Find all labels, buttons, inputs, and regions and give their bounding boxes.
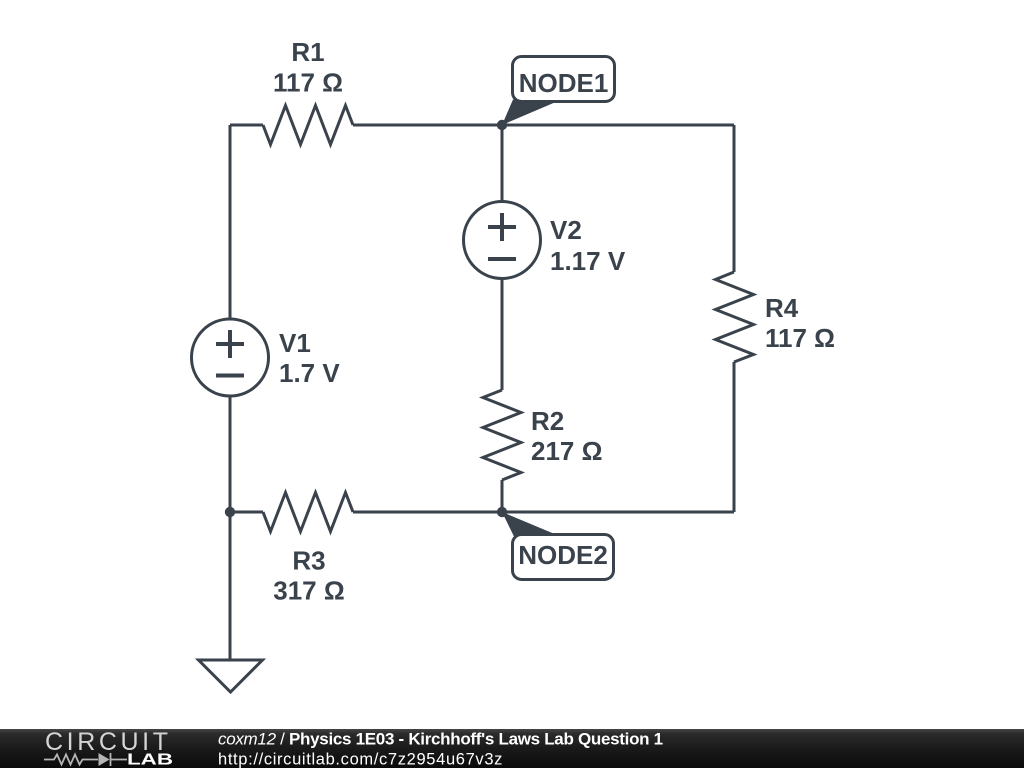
wire ground stem	[229, 512, 232, 660]
node NODE1 callout tail	[502, 100, 557, 126]
svg-text:R4: R4	[765, 293, 799, 323]
footer url line	[218, 751, 503, 768]
svg-text:http://circuitlab.com/c7z2954u: http://circuitlab.com/c7z2954u67v3z	[218, 751, 503, 768]
voltage source V1	[192, 319, 269, 396]
ground symbol	[199, 660, 263, 692]
wire right vertical lower (R4 to bottom rail)	[733, 362, 736, 512]
node NODE2 callout box	[513, 535, 614, 580]
svg-text:NODE1: NODE1	[519, 68, 609, 98]
wire bottom rail left segment	[230, 511, 263, 514]
label R3 value 317 ohm	[273, 576, 344, 606]
svg-text:1.7 V: 1.7 V	[279, 358, 340, 388]
label NODE1	[519, 68, 609, 98]
node junction dot NODE2	[497, 507, 507, 517]
label R4	[765, 293, 799, 323]
svg-text:R1: R1	[291, 37, 324, 67]
label R1 value 117 ohm	[273, 68, 343, 98]
label R4 value 117 ohm	[765, 323, 835, 353]
logo CIRCUIT wordmark	[45, 728, 172, 756]
svg-text:R2: R2	[531, 406, 564, 436]
resistor R2	[483, 390, 521, 480]
label R3	[292, 546, 325, 576]
node junction dot bottom-left	[225, 507, 235, 517]
svg-text:V1: V1	[279, 328, 311, 358]
svg-text:317 Ω: 317 Ω	[273, 576, 344, 606]
svg-text:V2: V2	[550, 215, 582, 245]
svg-text:1.17 V: 1.17 V	[550, 246, 626, 276]
wire right vertical upper (top rail to R4)	[733, 125, 736, 272]
label V1 value 1.7 V	[279, 358, 340, 388]
wire top rail left segment	[230, 124, 263, 127]
wire top rail right segment	[353, 124, 734, 127]
svg-text:217 Ω: 217 Ω	[531, 436, 602, 466]
wire middle vertical mid (V2 to R2)	[501, 278, 504, 390]
svg-text:NODE2: NODE2	[518, 540, 608, 570]
voltage source V2	[464, 202, 541, 279]
label V2 value 1.17 V	[550, 246, 626, 276]
label R2	[531, 406, 564, 436]
svg-text:117 Ω: 117 Ω	[273, 68, 343, 98]
svg-text:LAB: LAB	[127, 752, 173, 768]
logo resistor-diode glyph	[44, 753, 127, 766]
svg-text:coxm12 / Physics 1E03 - Kirchh: coxm12 / Physics 1E03 - Kirchhoff's Laws…	[218, 730, 663, 749]
footer title line	[218, 730, 663, 749]
logo LAB wordmark	[127, 752, 173, 768]
svg-text:R3: R3	[292, 546, 325, 576]
wire left vertical upper (top rail to V1)	[229, 125, 232, 320]
resistor R4	[716, 272, 754, 362]
node NODE1 callout box	[513, 57, 615, 102]
label R2 value 217 ohm	[531, 436, 602, 466]
footer bar	[0, 729, 1024, 768]
label R1	[291, 37, 324, 67]
wire middle vertical lower (R2 to NODE2)	[501, 480, 504, 512]
resistor R1	[263, 106, 353, 145]
wire middle vertical upper (NODE1 to V2)	[501, 125, 504, 202]
node NODE2 callout tail	[502, 512, 557, 537]
label V1	[279, 328, 311, 358]
node junction dot NODE1	[497, 120, 507, 130]
label NODE2	[518, 540, 608, 570]
wire left vertical lower (V1 to bottom rail)	[229, 396, 232, 513]
wire bottom rail right segment	[353, 511, 734, 514]
resistor R3	[263, 493, 353, 532]
label V2	[550, 215, 582, 245]
svg-text:117 Ω: 117 Ω	[765, 323, 835, 353]
